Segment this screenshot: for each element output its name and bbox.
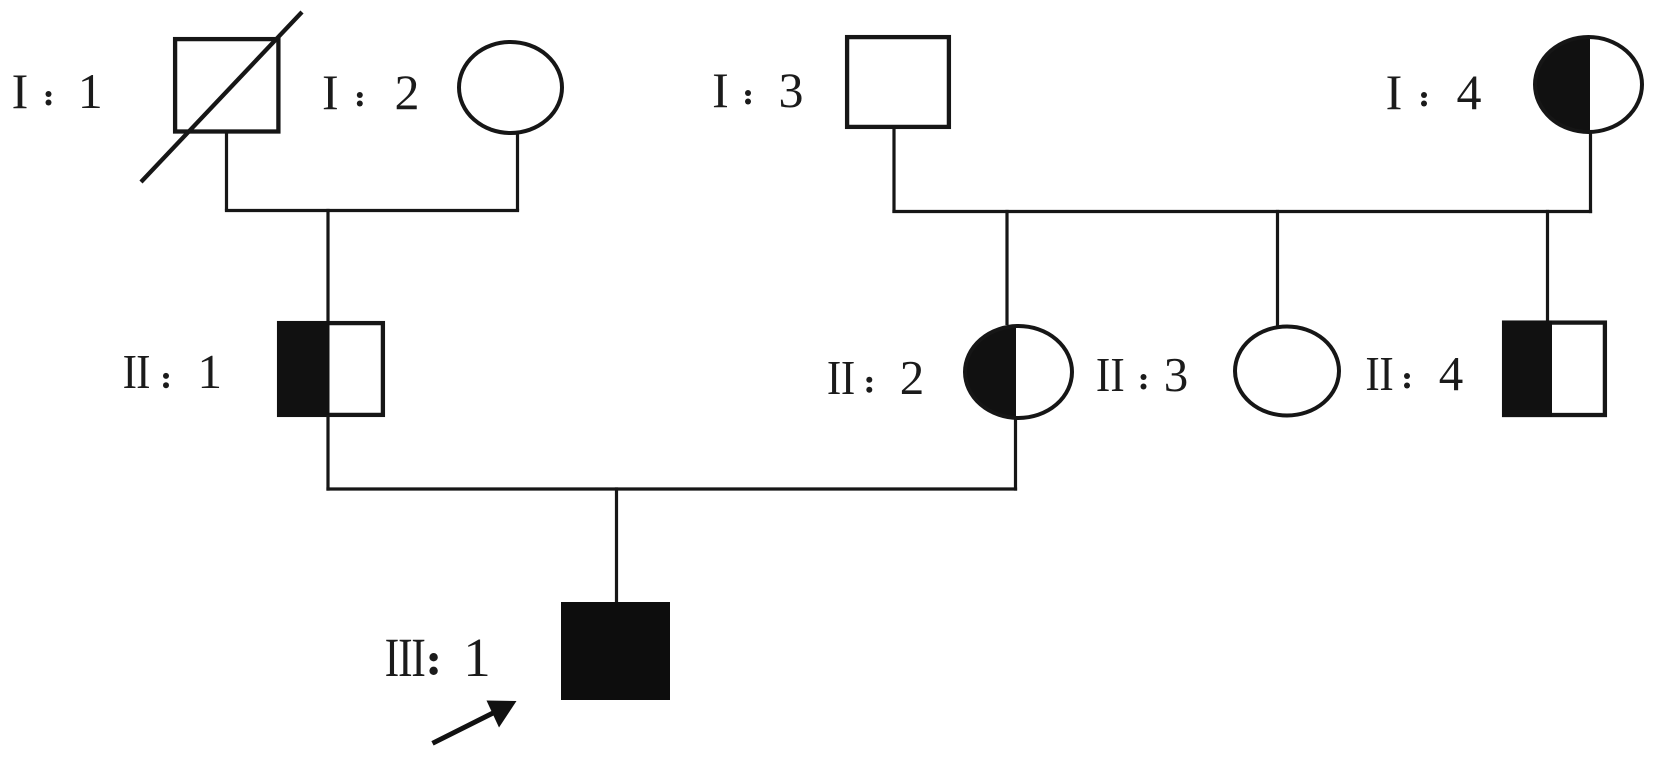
svg-text:I: I (1110, 347, 1124, 401)
proband arrow pointing to III:1 (433, 701, 517, 744)
svg-text:1: 1 (78, 63, 103, 119)
wire: drop from marriage line to II:2 (1005, 210, 1008, 325)
label II:4 (1365, 346, 1463, 401)
label I:2 (322, 64, 420, 120)
individual I:1 (deceased male, open square) (175, 39, 278, 131)
svg-text:I: I (841, 350, 855, 404)
svg-text:I: I (123, 344, 137, 398)
wire: I:1 down to marriage line (225, 131, 228, 211)
wire: I:4 down to marriage line (1589, 132, 1592, 213)
wire: drop from marriage line to II:3 (1276, 210, 1279, 326)
svg-text:3: 3 (779, 62, 804, 118)
label II:2 (827, 350, 924, 405)
individual I:2 (female, open circle) (459, 42, 562, 133)
wire: drop from marriage line to III:1 (615, 487, 618, 603)
svg-text:I: I (712, 62, 729, 118)
individual I:3 (male, open square) (847, 37, 949, 127)
label I:3 (712, 62, 803, 118)
wire: marriage line II:1 to II:2 (326, 487, 1017, 490)
individual II:1 (carrier male, half-filled square) (277, 321, 383, 417)
svg-text:I: I (1365, 346, 1379, 400)
svg-text:I: I (1379, 346, 1393, 400)
svg-text:1: 1 (463, 627, 491, 688)
svg-text:4: 4 (1457, 64, 1482, 120)
wire: marriage line I:3 to I:4 (892, 210, 1592, 213)
svg-text:I: I (398, 627, 413, 688)
svg-text:4: 4 (1439, 346, 1464, 401)
label II:3 (1096, 347, 1188, 402)
svg-text:I: I (1096, 347, 1110, 401)
svg-text:I: I (385, 627, 400, 688)
svg-text:I: I (322, 64, 339, 120)
wire: drop from marriage line to II:4 (1546, 210, 1549, 322)
wire: I:2 down to marriage line (516, 133, 519, 211)
svg-text:2: 2 (395, 64, 420, 120)
deceased slash through I:1 (141, 12, 302, 182)
individual II:3 (female, open circle) (1235, 327, 1339, 416)
wire: marriage line I:1 to I:2 (225, 209, 519, 212)
svg-text:I: I (411, 627, 426, 688)
svg-text:I: I (12, 63, 29, 119)
individual II:2 (carrier female, half-filled circle) (965, 326, 1073, 419)
svg-text:I: I (1386, 64, 1403, 120)
svg-text:I: I (827, 350, 841, 404)
svg-text:1: 1 (197, 344, 222, 399)
label I:4 (1386, 64, 1482, 120)
label III:1 (385, 627, 491, 688)
individual II:4 (carrier male, half-filled square) (1502, 321, 1605, 418)
individual I:4 (carrier female, half-filled circle) (1535, 37, 1643, 133)
svg-text:I: I (136, 344, 150, 398)
individual III:1 (affected male proband, filled square) (561, 602, 670, 700)
svg-text:2: 2 (900, 350, 925, 405)
wire: II:2 down to marriage line (1014, 417, 1017, 491)
wire: drop from marriage line to II:1 (326, 209, 329, 322)
label II:1 (123, 344, 222, 399)
label I:1 (12, 63, 103, 119)
wire: I:3 down to marriage line (892, 126, 895, 213)
wire: II:1 down to marriage line (326, 415, 329, 491)
svg-text:3: 3 (1164, 347, 1189, 402)
